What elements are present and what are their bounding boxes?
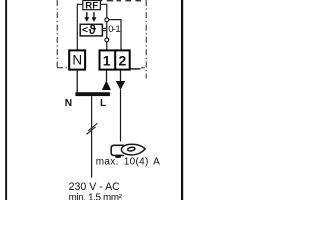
wire N terminal down to bar	[76, 70, 78, 93]
cut-off heading remnants top right	[100, 0, 141, 1]
device boundary dash-dot left	[56, 0, 58, 68]
svg-text:2: 2	[119, 53, 127, 69]
svg-text:RF: RF	[85, 0, 98, 11]
terminal N box	[69, 50, 85, 69]
pump load icon	[111, 144, 145, 158]
wire RF right to switch	[100, 4, 106, 17]
radio signal arrow 2	[92, 12, 97, 22]
load arrow down from terminal 2	[116, 81, 125, 90]
svg-text:1: 1	[103, 53, 111, 69]
device boundary dash-dot bottom-right corner	[141, 67, 146, 69]
device boundary dash-dot right	[145, 0, 147, 79]
switch contact lower circle	[105, 38, 109, 42]
svg-text:N: N	[65, 98, 72, 109]
svg-text:0-1: 0-1	[108, 24, 120, 35]
terminal block 1-2	[100, 50, 130, 69]
wire RF left to terminal N	[77, 4, 83, 50]
device boundary dash-dot bottom-left corner	[57, 67, 68, 69]
svg-text:N: N	[72, 53, 82, 68]
switch blade wire	[106, 22, 108, 38]
RF receiver box U1	[83, 0, 101, 11]
left page rule	[5, 0, 7, 200]
switch contact upper circle	[105, 18, 109, 22]
mains cable bar	[75, 92, 110, 96]
svg-text:<: <	[82, 24, 88, 36]
svg-text:ϑ: ϑ	[89, 23, 97, 37]
supply arrow up into terminal 1	[102, 80, 111, 90]
radio signal arrow 1	[84, 12, 89, 22]
wire lower circle into terminal 1	[106, 42, 108, 51]
right page rule	[181, 0, 183, 200]
svg-text:230 V - AC: 230 V - AC	[69, 181, 121, 193]
wire branch to terminal 2	[109, 20, 121, 51]
terminal block bottom extension line	[130, 68, 141, 70]
mains wire down from bar	[91, 96, 93, 178]
wire terminal 1 down to arrow	[106, 70, 108, 81]
cable break slash 2	[86, 127, 95, 135]
wire terminal 2 arrow down to pump	[120, 90, 122, 142]
wire terminal 2 down to arrow	[120, 70, 122, 82]
mechanical link =	[103, 28, 107, 30]
svg-text:max. 10(4) A: max. 10(4) A	[96, 157, 160, 168]
svg-text:L: L	[100, 98, 106, 109]
cable break slash 1	[88, 123, 97, 131]
svg-text:min. 1,5 mm²: min. 1,5 mm²	[69, 192, 123, 200]
thermostat box <ϑ	[80, 23, 102, 37]
